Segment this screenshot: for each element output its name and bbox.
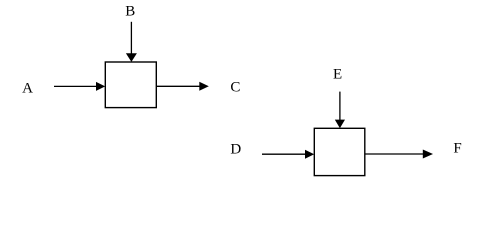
wire B input <box>130 22 132 55</box>
arrowhead A into U1 <box>96 82 105 91</box>
wire F output <box>365 153 424 155</box>
svg-text:F: F <box>453 141 461 157</box>
arrowhead E into U2 <box>335 120 345 129</box>
arrowhead C <box>199 82 209 91</box>
svg-text:D: D <box>230 142 241 158</box>
svg-text:C: C <box>230 80 240 96</box>
arrowhead D into U2 <box>305 150 314 159</box>
block U2 <box>314 128 365 175</box>
wire D input <box>262 153 306 155</box>
arrowhead B into U1 <box>126 53 137 62</box>
wire A input <box>54 85 97 87</box>
arrowhead F <box>423 150 433 159</box>
wire C output <box>156 85 200 87</box>
svg-text:A: A <box>22 81 33 97</box>
wire E input <box>339 92 341 121</box>
svg-text:E: E <box>333 67 342 83</box>
svg-text:B: B <box>125 4 135 20</box>
block U1 <box>105 62 156 108</box>
